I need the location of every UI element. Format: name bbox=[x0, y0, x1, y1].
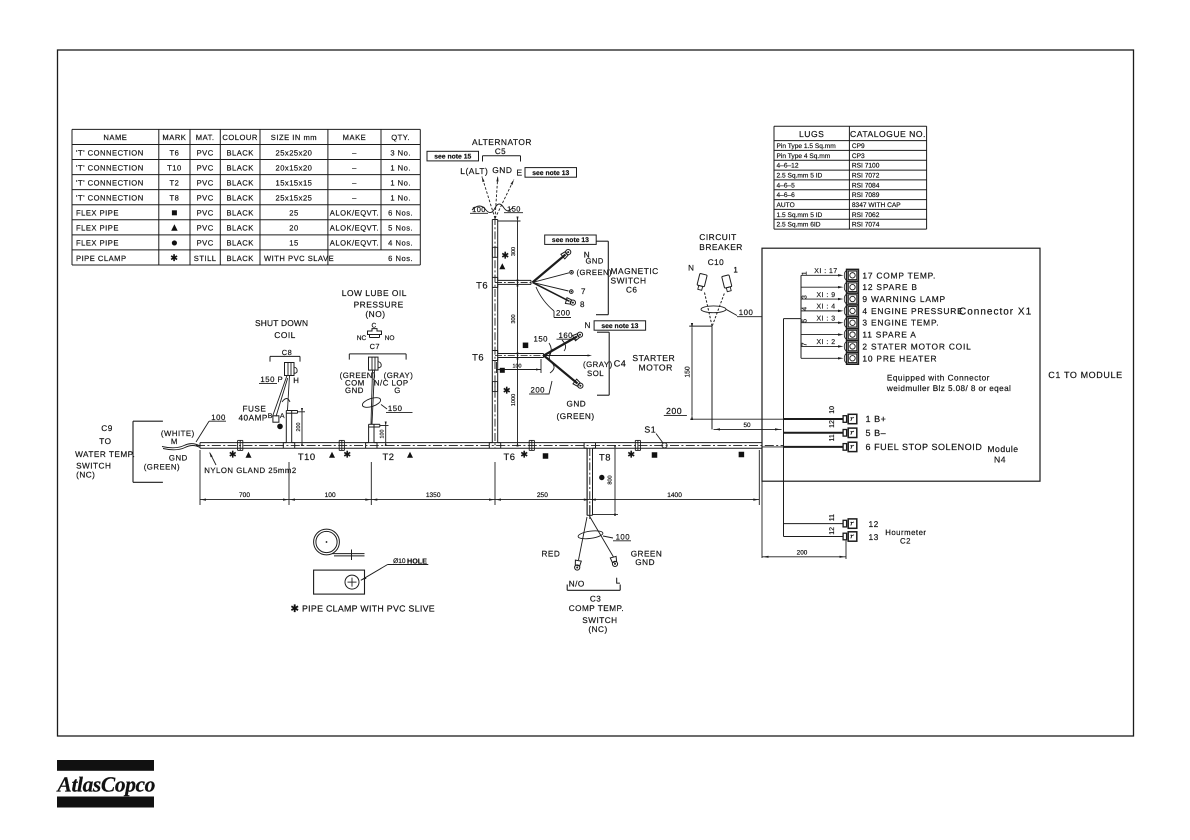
svg-text:2 STATER MOTOR COIL: 2 STATER MOTOR COIL bbox=[862, 341, 971, 351]
svg-text:CIRCUIT: CIRCUIT bbox=[699, 232, 736, 242]
svg-text:6 Nos.: 6 Nos. bbox=[388, 209, 413, 218]
svg-text:BLACK: BLACK bbox=[226, 163, 253, 172]
svg-text:T6: T6 bbox=[169, 148, 179, 157]
svg-text:20: 20 bbox=[289, 224, 298, 233]
svg-text:200: 200 bbox=[531, 386, 546, 395]
svg-text:PVC: PVC bbox=[197, 163, 214, 172]
svg-text:5: 5 bbox=[801, 319, 808, 323]
svg-text:7: 7 bbox=[801, 342, 808, 346]
svg-text:M: M bbox=[171, 437, 178, 446]
svg-text:NYLON GLAND 25mm2: NYLON GLAND 25mm2 bbox=[204, 466, 297, 475]
svg-text:✱: ✱ bbox=[627, 450, 635, 460]
svg-text:(NC): (NC) bbox=[76, 471, 95, 480]
svg-text:PVC: PVC bbox=[197, 209, 214, 218]
svg-text:4 ENGINE PRESSURE: 4 ENGINE PRESSURE bbox=[862, 306, 963, 316]
svg-text:250: 250 bbox=[537, 492, 548, 499]
svg-text:E: E bbox=[516, 168, 522, 178]
svg-text:MARK: MARK bbox=[162, 133, 186, 142]
svg-text:1 No.: 1 No. bbox=[390, 163, 411, 172]
svg-text:✱: ✱ bbox=[501, 251, 509, 261]
svg-text:1400: 1400 bbox=[667, 492, 682, 499]
svg-text:150: 150 bbox=[388, 404, 403, 413]
svg-text:RSI 7100: RSI 7100 bbox=[852, 163, 880, 170]
svg-text:CP9: CP9 bbox=[852, 143, 865, 150]
svg-text:5 B–: 5 B– bbox=[866, 428, 887, 438]
svg-text:3 No.: 3 No. bbox=[390, 148, 411, 157]
svg-text:4–6–6: 4–6–6 bbox=[777, 192, 796, 199]
svg-text:C9: C9 bbox=[101, 424, 112, 433]
svg-text:XI : 4: XI : 4 bbox=[816, 304, 835, 311]
svg-text:–: – bbox=[352, 148, 357, 157]
svg-text:N/C LOP: N/C LOP bbox=[374, 379, 409, 388]
svg-text:(GRAY): (GRAY) bbox=[583, 360, 613, 369]
svg-text:Pin Type 1.5 Sq.mm: Pin Type 1.5 Sq.mm bbox=[777, 143, 837, 150]
svg-text:FLEX PIPE: FLEX PIPE bbox=[76, 239, 119, 248]
svg-text:C7: C7 bbox=[370, 342, 380, 351]
svg-text:300: 300 bbox=[511, 247, 517, 256]
svg-text:1000: 1000 bbox=[511, 394, 517, 406]
svg-text:100: 100 bbox=[325, 492, 336, 499]
svg-text:C3: C3 bbox=[590, 595, 601, 604]
svg-text:C1 TO MODULE: C1 TO MODULE bbox=[1048, 370, 1122, 380]
svg-text:100: 100 bbox=[380, 430, 386, 439]
svg-text:T2: T2 bbox=[169, 178, 179, 187]
svg-text:✱: ✱ bbox=[343, 450, 351, 460]
svg-text:4–6–12: 4–6–12 bbox=[777, 163, 799, 170]
svg-text:'T' CONNECTION: 'T' CONNECTION bbox=[76, 178, 144, 187]
svg-text:FLEX PIPE: FLEX PIPE bbox=[76, 209, 119, 218]
svg-text:MOTOR: MOTOR bbox=[639, 362, 673, 372]
svg-text:L: L bbox=[616, 577, 621, 586]
svg-text:150: 150 bbox=[534, 335, 549, 344]
svg-text:T6: T6 bbox=[472, 352, 484, 363]
svg-text:PVC: PVC bbox=[197, 239, 214, 248]
svg-text:200: 200 bbox=[666, 406, 682, 416]
svg-text:4–6–5: 4–6–5 bbox=[777, 182, 796, 189]
svg-text:COMP TEMP.: COMP TEMP. bbox=[569, 604, 625, 613]
svg-text:NO: NO bbox=[385, 335, 395, 342]
svg-text:150: 150 bbox=[507, 204, 521, 213]
svg-text:200: 200 bbox=[797, 549, 808, 556]
svg-text:SIZE IN mm: SIZE IN mm bbox=[271, 133, 317, 142]
svg-text:C2: C2 bbox=[900, 537, 911, 546]
svg-text:COLOUR: COLOUR bbox=[222, 133, 258, 142]
svg-text:SOL: SOL bbox=[587, 369, 604, 378]
svg-text:STILL: STILL bbox=[194, 254, 217, 263]
svg-text:G: G bbox=[394, 386, 401, 395]
svg-text:PVC: PVC bbox=[197, 194, 214, 203]
svg-text:T10: T10 bbox=[298, 451, 316, 462]
svg-text:N/O: N/O bbox=[569, 580, 585, 589]
svg-text:T8: T8 bbox=[169, 194, 179, 203]
svg-text:1: 1 bbox=[801, 271, 808, 275]
svg-text:QTY.: QTY. bbox=[391, 133, 410, 142]
svg-text:1 No.: 1 No. bbox=[390, 178, 411, 187]
svg-text:GND: GND bbox=[567, 400, 587, 409]
svg-text:BLACK: BLACK bbox=[226, 239, 253, 248]
svg-text:✱: ✱ bbox=[520, 450, 528, 460]
svg-text:3: 3 bbox=[801, 295, 808, 299]
svg-text:T6: T6 bbox=[476, 279, 488, 290]
svg-text:A: A bbox=[280, 413, 285, 420]
svg-text:BLACK: BLACK bbox=[226, 148, 253, 157]
svg-text:–: – bbox=[352, 163, 357, 172]
svg-text:'T' CONNECTION: 'T' CONNECTION bbox=[76, 163, 144, 172]
svg-text:100: 100 bbox=[211, 413, 226, 422]
svg-text:GND: GND bbox=[492, 165, 512, 175]
svg-text:XI : 9: XI : 9 bbox=[816, 292, 835, 299]
svg-text:T2: T2 bbox=[383, 451, 395, 462]
svg-text:WATER TEMP.: WATER TEMP. bbox=[75, 450, 135, 459]
svg-text:10 PRE HEATER: 10 PRE HEATER bbox=[862, 353, 937, 363]
svg-text:GND: GND bbox=[345, 386, 364, 395]
svg-text:Pin Type 4 Sq.mm: Pin Type 4 Sq.mm bbox=[777, 153, 831, 160]
svg-text:Equipped with Connector: Equipped with Connector bbox=[887, 374, 990, 383]
svg-text:BREAKER: BREAKER bbox=[699, 242, 743, 252]
svg-text:SWITCH: SWITCH bbox=[611, 275, 647, 285]
svg-text:WITH PVC SLAVE: WITH PVC SLAVE bbox=[264, 254, 334, 263]
svg-text:RSI 7072: RSI 7072 bbox=[852, 173, 880, 180]
svg-text:AtlasCopco: AtlasCopco bbox=[56, 773, 156, 797]
svg-text:1 No.: 1 No. bbox=[390, 194, 411, 203]
svg-text:150: 150 bbox=[685, 366, 692, 378]
svg-text:see note 13: see note 13 bbox=[532, 170, 569, 177]
svg-text:6 Nos.: 6 Nos. bbox=[388, 254, 413, 263]
svg-text:BLACK: BLACK bbox=[226, 194, 253, 203]
svg-text:BLACK: BLACK bbox=[226, 178, 253, 187]
svg-text:BLACK: BLACK bbox=[226, 254, 253, 263]
svg-text:PVC: PVC bbox=[197, 178, 214, 187]
svg-text:XI : 2: XI : 2 bbox=[816, 339, 835, 346]
svg-text:NAME: NAME bbox=[103, 133, 127, 142]
svg-text:1350: 1350 bbox=[426, 492, 441, 499]
svg-text:Connector X1: Connector X1 bbox=[959, 307, 1032, 318]
svg-text:GND: GND bbox=[586, 256, 604, 265]
svg-text:12: 12 bbox=[869, 519, 879, 529]
svg-text:(NC): (NC) bbox=[588, 625, 607, 634]
svg-text:200: 200 bbox=[556, 309, 571, 318]
svg-text:RSI 7074: RSI 7074 bbox=[852, 222, 880, 229]
svg-text:12: 12 bbox=[829, 527, 836, 535]
svg-text:50: 50 bbox=[743, 422, 751, 429]
svg-text:MAT.: MAT. bbox=[196, 133, 215, 142]
svg-text:GND: GND bbox=[169, 453, 188, 462]
svg-text:B: B bbox=[268, 413, 273, 420]
svg-text:LOW LUBE OIL: LOW LUBE OIL bbox=[342, 288, 407, 298]
svg-text:5 Nos.: 5 Nos. bbox=[388, 224, 413, 233]
svg-text:–: – bbox=[352, 194, 357, 203]
svg-text:BLACK: BLACK bbox=[226, 209, 253, 218]
svg-text:4: 4 bbox=[801, 307, 808, 311]
svg-text:10: 10 bbox=[829, 406, 836, 414]
svg-text:700: 700 bbox=[239, 492, 250, 499]
svg-text:6 FUEL STOP SOLENOID: 6 FUEL STOP SOLENOID bbox=[866, 442, 983, 452]
svg-text:(GREEN): (GREEN) bbox=[577, 268, 613, 277]
svg-text:ALOK/EQVT.: ALOK/EQVT. bbox=[330, 224, 379, 233]
svg-text:7: 7 bbox=[581, 287, 586, 296]
svg-text:800: 800 bbox=[608, 475, 614, 484]
svg-text:NC: NC bbox=[357, 335, 367, 342]
svg-text:MAKE: MAKE bbox=[343, 133, 367, 142]
svg-text:1 B+: 1 B+ bbox=[866, 414, 887, 424]
svg-text:100: 100 bbox=[513, 363, 522, 369]
svg-text:P: P bbox=[278, 375, 284, 384]
svg-text:S1: S1 bbox=[644, 425, 656, 435]
svg-text:Module: Module bbox=[987, 444, 1018, 454]
svg-text:PIPE CLAMP: PIPE CLAMP bbox=[76, 254, 127, 263]
svg-text:see note 13: see note 13 bbox=[552, 237, 589, 244]
svg-text:SWITCH: SWITCH bbox=[76, 461, 111, 470]
svg-text:CP3: CP3 bbox=[852, 153, 865, 160]
svg-text:PVC: PVC bbox=[197, 224, 214, 233]
svg-text:RSI 7084: RSI 7084 bbox=[852, 182, 880, 189]
svg-text:✱: ✱ bbox=[503, 386, 511, 396]
svg-text:H: H bbox=[293, 376, 299, 385]
svg-text:(GREEN): (GREEN) bbox=[144, 462, 180, 471]
svg-text:25x25x20: 25x25x20 bbox=[275, 148, 312, 157]
svg-text:CATALOGUE NO.: CATALOGUE NO. bbox=[850, 129, 926, 139]
svg-text:AUTO: AUTO bbox=[777, 202, 795, 209]
svg-text:'T' CONNECTION: 'T' CONNECTION bbox=[76, 148, 144, 157]
svg-text:HOLE: HOLE bbox=[407, 556, 427, 565]
svg-text:PIPE CLAMP WITH PVC SLIVE: PIPE CLAMP WITH PVC SLIVE bbox=[302, 604, 435, 614]
svg-text:12 SPARE B: 12 SPARE B bbox=[862, 282, 917, 292]
svg-text:1.5 Sq.mm 5 ID: 1.5 Sq.mm 5 ID bbox=[777, 212, 823, 219]
svg-text:FLEX PIPE: FLEX PIPE bbox=[76, 224, 119, 233]
svg-text:–: – bbox=[352, 178, 357, 187]
svg-text:RSI 7062: RSI 7062 bbox=[852, 212, 880, 219]
svg-text:2.5 Sq.mm 5 ID: 2.5 Sq.mm 5 ID bbox=[777, 173, 823, 180]
svg-text:C4: C4 bbox=[614, 359, 627, 369]
svg-text:'T' CONNECTION: 'T' CONNECTION bbox=[76, 194, 144, 203]
svg-text:15: 15 bbox=[289, 239, 298, 248]
svg-text:see note 13: see note 13 bbox=[601, 323, 638, 330]
svg-text:N4: N4 bbox=[994, 455, 1006, 465]
svg-text:300: 300 bbox=[511, 314, 517, 323]
svg-text:11: 11 bbox=[829, 434, 836, 441]
svg-text:C8: C8 bbox=[282, 348, 292, 357]
svg-text:N: N bbox=[688, 264, 694, 273]
svg-text:GND: GND bbox=[635, 558, 655, 567]
svg-text:160: 160 bbox=[559, 331, 574, 340]
svg-text:25: 25 bbox=[289, 209, 298, 218]
svg-text:17 COMP TEMP.: 17 COMP TEMP. bbox=[862, 270, 936, 280]
svg-text:COIL: COIL bbox=[274, 330, 296, 340]
svg-text:11 SPARE A: 11 SPARE A bbox=[862, 330, 916, 340]
svg-text:T6: T6 bbox=[504, 451, 516, 462]
svg-text:FUSE: FUSE bbox=[243, 405, 267, 414]
svg-text:N: N bbox=[585, 321, 591, 330]
svg-text:✱: ✱ bbox=[229, 450, 237, 460]
svg-text:3 ENGINE TEMP.: 3 ENGINE TEMP. bbox=[862, 318, 939, 328]
svg-text:9 WARNING LAMP: 9 WARNING LAMP bbox=[862, 294, 945, 304]
svg-text:T10: T10 bbox=[167, 163, 182, 172]
svg-text:100: 100 bbox=[616, 533, 631, 542]
svg-text:PVC: PVC bbox=[197, 148, 214, 157]
svg-text:C10: C10 bbox=[708, 258, 725, 267]
svg-text:RSI 7089: RSI 7089 bbox=[852, 192, 880, 199]
svg-text:✱: ✱ bbox=[170, 253, 178, 263]
svg-text:C6: C6 bbox=[626, 286, 637, 295]
svg-text:TO: TO bbox=[99, 437, 111, 446]
svg-text:4 Nos.: 4 Nos. bbox=[388, 239, 413, 248]
svg-text:150: 150 bbox=[260, 375, 275, 384]
svg-text:(NO): (NO) bbox=[365, 309, 385, 319]
svg-text:SWITCH: SWITCH bbox=[582, 616, 617, 625]
svg-text:100: 100 bbox=[472, 205, 486, 214]
svg-text:BLACK: BLACK bbox=[226, 224, 253, 233]
svg-text:13: 13 bbox=[869, 532, 879, 542]
svg-text:✱: ✱ bbox=[290, 604, 299, 615]
svg-text:XI : 3: XI : 3 bbox=[816, 316, 835, 323]
svg-text:see note 15: see note 15 bbox=[434, 154, 471, 161]
svg-text:weidmuller Blz 5.08/ 8 or eqea: weidmuller Blz 5.08/ 8 or eqeal bbox=[886, 384, 1011, 393]
svg-text:2.5 Sq.mm 6ID: 2.5 Sq.mm 6ID bbox=[777, 222, 821, 229]
svg-text:200: 200 bbox=[296, 423, 302, 432]
svg-text:25x15x25: 25x15x25 bbox=[275, 194, 312, 203]
svg-text:20x15x20: 20x15x20 bbox=[275, 163, 312, 172]
svg-text:XI : 17: XI : 17 bbox=[814, 268, 837, 275]
svg-text:Ø10: Ø10 bbox=[393, 558, 406, 565]
svg-text:RED: RED bbox=[542, 550, 561, 559]
svg-text:PRESSURE: PRESSURE bbox=[354, 300, 404, 310]
svg-text:100: 100 bbox=[739, 308, 754, 317]
svg-text:8347 WITH CAP: 8347 WITH CAP bbox=[852, 202, 901, 209]
svg-text:40AMP: 40AMP bbox=[239, 414, 268, 423]
svg-text:C5: C5 bbox=[495, 147, 506, 156]
svg-text:1: 1 bbox=[733, 266, 738, 275]
svg-text:ALOK/EQVT.: ALOK/EQVT. bbox=[330, 209, 379, 218]
svg-text:(GREEN): (GREEN) bbox=[557, 412, 595, 421]
svg-text:L(ALT): L(ALT) bbox=[460, 166, 488, 176]
svg-text:11: 11 bbox=[829, 514, 836, 521]
svg-text:15x15x15: 15x15x15 bbox=[275, 178, 312, 187]
svg-text:LUGS: LUGS bbox=[799, 129, 824, 139]
svg-text:SHUT DOWN: SHUT DOWN bbox=[255, 318, 308, 328]
svg-text:12: 12 bbox=[829, 420, 836, 428]
svg-text:8: 8 bbox=[580, 300, 585, 309]
svg-text:ALOK/EQVT.: ALOK/EQVT. bbox=[330, 239, 379, 248]
svg-text:ALTERNATOR: ALTERNATOR bbox=[472, 137, 532, 147]
svg-text:T8: T8 bbox=[599, 452, 611, 463]
